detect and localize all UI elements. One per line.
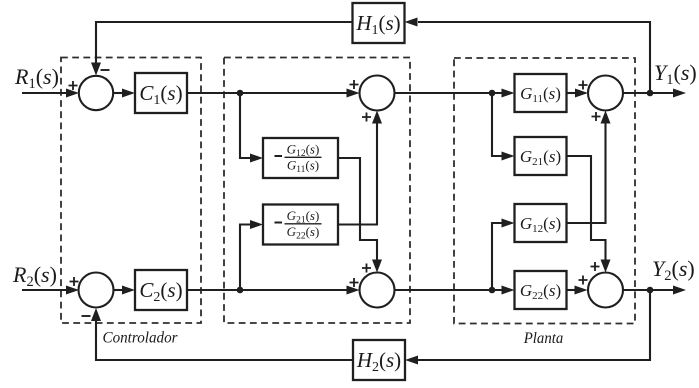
wire C1 to S2 [187, 92, 348, 94]
wire G22 to S6 [567, 289, 576, 291]
svg-text:C2(s): C2(s) [139, 278, 182, 305]
node junction B1 [489, 90, 496, 97]
summing junction S6 [588, 273, 623, 308]
wire S1 to C1 [113, 92, 123, 94]
value label minus G21(s)/G22(s) [275, 222, 283, 224]
sign plus left at S3 [579, 81, 588, 90]
wire B1 to G21 input [492, 93, 503, 156]
svg-text:R1(s): R1(s) [14, 64, 59, 92]
wire S5 to G22 [395, 289, 503, 291]
svg-text:Y1(s): Y1(s) [654, 60, 697, 88]
summing junction S4 [79, 273, 114, 308]
sign minus at S1 [101, 69, 110, 71]
sign plus left at S6 [579, 276, 588, 285]
wire R1 input [22, 92, 67, 94]
block H1 [353, 3, 405, 43]
sign minus at S4 [82, 315, 91, 317]
block H2 [353, 340, 405, 380]
node junction Y1 [647, 90, 654, 97]
block G21 [515, 137, 567, 175]
svg-text:Y2(s): Y2(s) [652, 256, 695, 284]
summing junction S2 [360, 76, 395, 111]
sign plus at S4 [70, 277, 79, 286]
wire A1 to D12 input [240, 93, 251, 158]
value label minus G12(s)/G11(s) [275, 155, 283, 157]
summing junction S3 [588, 76, 623, 111]
fraction bar of D12 [285, 156, 322, 158]
summing junction S5 [360, 273, 395, 308]
wire Y1 to H1 [418, 22, 650, 93]
svg-text:C1(s): C1(s) [139, 81, 182, 108]
wire C2 to S5 [187, 289, 348, 291]
block G12 [515, 204, 567, 242]
wire G12 output to S3 [567, 123, 606, 223]
wire B2 to G12 input [492, 223, 503, 290]
sign plus top at S6 [591, 262, 600, 271]
summing junction S1 [79, 76, 113, 110]
svg-text:Planta: Planta [523, 330, 564, 347]
dashed box Planta [454, 58, 635, 324]
node junction A2 [237, 287, 244, 294]
fraction bar of D21 [285, 223, 322, 225]
wire S2 to G11 [395, 92, 503, 94]
node junction A1 [237, 90, 244, 97]
block D12 [263, 138, 338, 178]
sign plus left at S5 [350, 278, 359, 287]
node junction B2 [489, 287, 496, 294]
wire G21 output to S6 [567, 156, 606, 260]
wire D12 output to S5 [338, 158, 377, 260]
block G11 [515, 74, 567, 112]
wire Y2 to H2 [418, 290, 650, 360]
svg-text:H2(s): H2(s) [356, 348, 401, 375]
block D21 [263, 205, 338, 245]
wire Y1 output [623, 92, 674, 94]
wire A2 to D21 input [240, 225, 251, 291]
sign plus bottom at S3 [592, 112, 601, 121]
wire Y2 output [623, 289, 674, 291]
dashed box Controlador [61, 58, 201, 324]
wire H2 to S4 [96, 321, 353, 360]
wire D21 output to S2 [338, 123, 377, 225]
node junction Y2 [647, 287, 654, 294]
block C2 [135, 270, 187, 310]
wire S4 to C2 [114, 289, 124, 291]
dashed box decoupler [224, 58, 410, 324]
wire G11 to S3 [567, 92, 577, 94]
block G22 [515, 271, 567, 309]
wire H1 to S1 [96, 22, 353, 63]
svg-text:Controlador: Controlador [103, 330, 179, 347]
sign plus at S1 [69, 81, 78, 90]
svg-text:R2(s): R2(s) [12, 262, 57, 290]
block C1 [135, 73, 187, 113]
svg-text:H1(s): H1(s) [355, 11, 400, 38]
sign plus bottom at S2 [362, 113, 371, 122]
wire R2 input [22, 289, 67, 291]
sign plus top at S5 [362, 264, 371, 273]
sign plus left at S2 [350, 80, 359, 89]
